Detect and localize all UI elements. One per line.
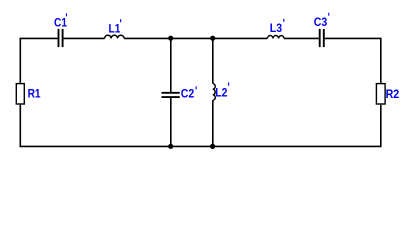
svg-text:R2: R2: [386, 88, 400, 101]
svg-text:C3: C3: [314, 16, 327, 29]
svg-text:C1: C1: [54, 17, 67, 30]
svg-text:C2: C2: [181, 88, 194, 101]
svg-text:R1: R1: [28, 88, 41, 101]
svg-text:L2: L2: [215, 87, 227, 100]
svg-text:L1: L1: [109, 22, 121, 35]
svg-text:L3: L3: [270, 23, 282, 36]
